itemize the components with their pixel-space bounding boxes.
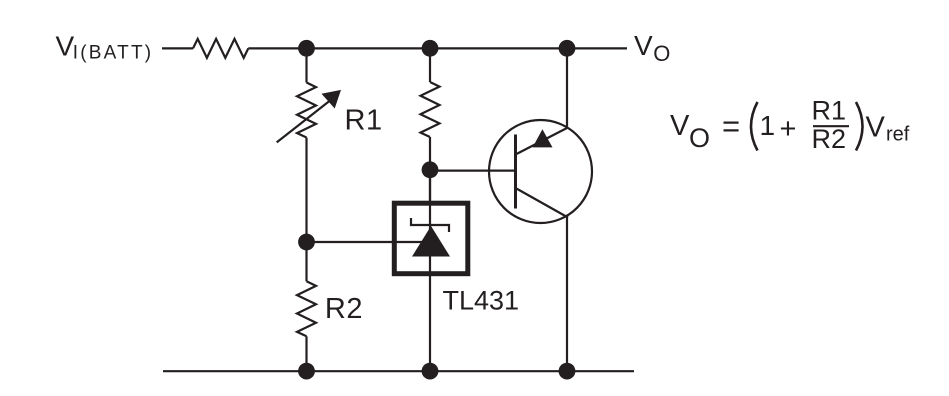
svg-text:O: O	[689, 123, 710, 153]
node bottom A	[298, 363, 315, 380]
wire A lower	[305, 336, 307, 371]
wire TL431 vertical	[429, 170, 431, 371]
fraction bar	[813, 125, 849, 127]
svg-text:R2: R2	[812, 124, 847, 154]
node base	[422, 161, 439, 178]
resistor bias (upper)	[421, 82, 440, 137]
svg-text:V: V	[634, 30, 653, 61]
wire collector top	[566, 48, 568, 128]
wire A upper	[305, 48, 307, 82]
svg-text:R1: R1	[812, 96, 847, 126]
svg-text:O: O	[653, 41, 670, 66]
svg-text:V: V	[670, 110, 690, 142]
wire base	[430, 170, 516, 172]
equation VO = (1 + R1/R2) Vref	[670, 96, 910, 155]
TL431 U1	[394, 203, 468, 274]
node top C	[559, 40, 576, 57]
R1 wiper arrow	[277, 99, 332, 142]
transistor Q1	[489, 120, 592, 223]
svg-text:R1: R1	[345, 104, 383, 136]
svg-text:=: =	[722, 109, 740, 144]
wire B middle	[429, 137, 431, 201]
resistor R2	[297, 281, 316, 336]
wire top rail	[248, 47, 627, 49]
resistor R1 (adjustable)	[297, 83, 316, 138]
node top A	[298, 40, 315, 57]
node top B	[422, 40, 439, 57]
svg-text:1: 1	[760, 110, 776, 141]
svg-text:I(BATT): I(BATT)	[73, 43, 153, 64]
svg-text:V: V	[866, 112, 886, 144]
node ref	[298, 234, 315, 251]
node bottom C	[559, 363, 576, 380]
resistor series (battery)	[193, 39, 248, 58]
svg-text:TL431: TL431	[443, 286, 520, 316]
label VI(BATT)	[56, 30, 154, 63]
paren right	[856, 102, 863, 151]
svg-text:R2: R2	[325, 293, 363, 325]
wire emitter bottom	[566, 217, 568, 371]
svg-text:V: V	[56, 30, 75, 61]
paren left	[751, 102, 758, 151]
label VO	[634, 30, 670, 66]
svg-text:+: +	[780, 113, 797, 145]
wire ref horizontal	[307, 241, 432, 243]
wire input	[162, 47, 193, 49]
node bottom B	[422, 363, 439, 380]
wire bottom rail	[163, 370, 634, 372]
wire B upper	[429, 48, 431, 82]
wire A middle	[305, 138, 307, 282]
svg-text:ref: ref	[886, 124, 910, 146]
